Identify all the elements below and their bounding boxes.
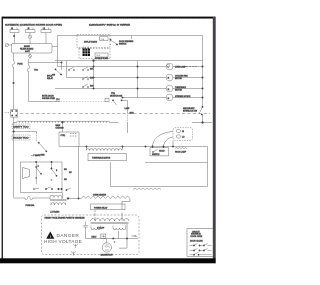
svg-text:HOOD: HOOD [159,151,165,153]
svg-text:L: L [168,67,169,69]
svg-text:FUSE 20A: FUSE 20A [26,204,35,207]
svg-text:STIRRER MOTOR: STIRRER MOTOR [175,96,191,98]
svg-text:CN-B: CN-B [96,55,100,57]
svg-text:DISPLAY BOARD: DISPLAY BOARD [84,41,98,44]
svg-text:RECT: RECT [92,236,98,238]
svg-text:CTRL: CTRL [61,135,66,137]
svg-text:TURNTABLE MOTOR: TURNTABLE MOTOR [92,157,111,160]
svg-text:SW2: SW2 [41,155,45,157]
svg-text:HV RELAY BOARD: HV RELAY BOARD [95,57,109,60]
svg-text:SWITCH: SWITCH [119,43,127,45]
svg-text:MAGNETRON: MAGNETRON [101,253,114,256]
svg-text:L2: L2 [43,28,45,30]
svg-text:SCHEMATIC (CONDITION SHOWN: DO: SCHEMATIC (CONDITION SHOWN: DOOR OPEN) [5,24,62,27]
svg-text:SHOWN OPEN: SHOWN OPEN [42,98,55,100]
svg-text:TTM: TTM [111,93,115,95]
svg-text:RELAY: RELAY [47,77,54,80]
svg-text:RY1: RY1 [90,69,94,71]
svg-text:100MA: 100MA [131,235,137,238]
svg-text:DOOR CLOSE: DOOR CLOSE [190,240,203,242]
svg-text:MOTOR: MOTOR [175,78,182,80]
svg-text:SWITCH: SWITCH [152,154,160,156]
svg-text:L.V.TRANS: L.V.TRANS [50,211,60,214]
svg-text:INTERLOCK SW: INTERLOCK SW [183,110,197,112]
svg-text:H.V.CAP: H.V.CAP [97,227,105,230]
svg-text:OVEN LAMP: OVEN LAMP [175,65,187,68]
svg-text:120/240V 60Hz 3 WIRE: 120/240V 60Hz 3 WIRE [89,25,131,27]
svg-text:MOTOR: MOTOR [175,89,182,91]
svg-text:RY3: RY3 [90,86,94,88]
svg-text:RY2: RY2 [90,78,94,80]
svg-text:POWER RELAY: POWER RELAY [94,206,108,209]
svg-text:HIGH VOLTAGE PARTS INSIDE: HIGH VOLTAGE PARTS INSIDE [45,217,86,220]
svg-text:HIGH VOLTAGE: HIGH VOLTAGE [44,239,82,244]
svg-text:DOOR OPEN: DOOR OPEN [191,236,203,238]
svg-text:TCO: TCO [34,70,38,72]
svg-text:CAVITY TCO: CAVITY TCO [13,125,29,128]
svg-text:SW: SW [52,75,55,77]
svg-text:CHASSIS: CHASSIS [56,127,65,130]
svg-text:LAMP: LAMP [125,107,131,110]
svg-text:→ F MARK: → F MARK [31,154,41,157]
svg-text:MONITOR SW: MONITOR SW [110,96,122,98]
svg-text:HOOD LAMP: HOOD LAMP [175,151,187,154]
svg-text:HOOD TCO: HOOD TCO [13,138,29,140]
svg-text:FUSE: FUSE [18,64,24,66]
svg-text:OVEN HEATER: OVEN HEATER [93,193,107,196]
svg-text:ASSY: ASSY [25,50,31,53]
svg-text:LT-1: LT-1 [56,99,60,101]
svg-text:DANGER: DANGER [57,233,80,238]
